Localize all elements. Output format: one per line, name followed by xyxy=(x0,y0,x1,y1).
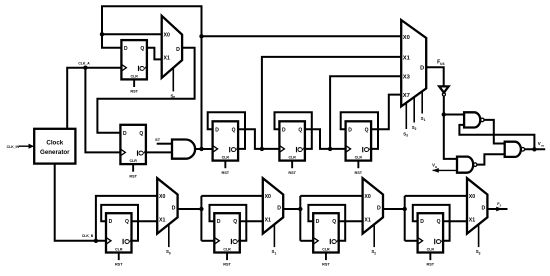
svg-text:CLK_IN: CLK_IN xyxy=(7,145,20,149)
wire stage input to next mux X0 xyxy=(405,195,467,197)
node Vout feedback tap xyxy=(532,147,536,151)
svg-text:RST: RST xyxy=(355,171,363,175)
svg-text:D: D xyxy=(481,205,485,211)
svg-text:RST: RST xyxy=(129,174,137,178)
wire FF5 Qbar toggle feedback to D xyxy=(341,112,378,149)
wire FF4 Qbar toggle feedback to D xyxy=(275,112,312,149)
svg-text:Q: Q xyxy=(124,238,131,244)
mux M4 xyxy=(363,178,383,255)
svg-text:RST: RST xyxy=(222,171,230,175)
svg-text:X7: X7 xyxy=(403,93,410,99)
flip-flop FF8 xyxy=(313,213,339,267)
wire mux M2 D output to stage input node xyxy=(178,208,202,210)
svg-text:Q: Q xyxy=(125,219,129,225)
svg-text:D: D xyxy=(348,127,352,133)
wire mux M4 D output to stage input node xyxy=(383,208,405,210)
wire stage input to FF9 clock xyxy=(405,240,418,242)
wire stage input to next mux X0 xyxy=(201,195,262,197)
flip-flop FF7 xyxy=(214,213,240,267)
svg-text:D: D xyxy=(172,205,176,211)
node clock chain junction with top loop xyxy=(199,147,203,151)
svg-text:CLR: CLR xyxy=(288,156,296,160)
svg-text:CLR: CLR xyxy=(427,248,435,252)
svg-text:D: D xyxy=(377,205,381,211)
svg-text:CLK_A: CLK_A xyxy=(78,61,90,65)
svg-text:D: D xyxy=(277,205,281,211)
svg-text:Q: Q xyxy=(365,127,369,133)
svg-text:CLR: CLR xyxy=(355,156,363,160)
wire FF7 Qbar toggle feedback to D xyxy=(210,205,247,241)
svg-text:Q: Q xyxy=(298,127,302,133)
clock generator box xyxy=(34,129,75,164)
and-gate U1 xyxy=(172,140,195,159)
wire FF6 Q to mux M2 X1 input xyxy=(132,220,158,222)
svg-text:Q: Q xyxy=(332,219,336,225)
svg-text:X0: X0 xyxy=(265,194,271,200)
wire stage input to next mux X0 xyxy=(300,195,362,197)
node CLK_B branch junction xyxy=(94,239,98,243)
svg-text:Q: Q xyxy=(140,65,147,71)
select S3 of mux MB xyxy=(405,103,407,129)
node CLK_A junction xyxy=(83,66,87,70)
node big mux X0 tap xyxy=(199,34,203,38)
wire inverter output down to nand U5 input A xyxy=(444,96,457,159)
wire top feedback loop into FF1 D and down to clock node xyxy=(102,6,202,149)
node stage input junction xyxy=(403,207,407,211)
wire mux MB D output xyxy=(426,67,444,86)
svg-text:Q: Q xyxy=(437,219,441,225)
svg-text:X1: X1 xyxy=(265,217,271,223)
wire FF4 Q to FF5 clock xyxy=(305,129,346,149)
svg-text:Q: Q xyxy=(140,46,144,52)
svg-text:D: D xyxy=(109,219,113,225)
svg-text:X0: X0 xyxy=(403,35,410,41)
svg-text:Q: Q xyxy=(139,131,143,137)
svg-text:RST: RST xyxy=(288,171,296,175)
svg-text:D: D xyxy=(176,47,180,53)
svg-text:Q: Q xyxy=(233,219,237,225)
wire to mux M1 X0 input xyxy=(102,33,162,35)
svg-text:D: D xyxy=(123,131,127,137)
wire mux M3 D output to stage input node xyxy=(283,208,300,210)
svg-text:X1: X1 xyxy=(469,217,475,223)
wire FF2 Qbar to and-gate input B xyxy=(146,151,172,153)
select S2 of mux MB xyxy=(413,97,415,122)
wire FF9 Q to mux M5 X1 input xyxy=(443,220,467,222)
mux M1 xyxy=(162,16,182,100)
wire VH input to nand U5 input B xyxy=(433,169,457,171)
svg-text:Q: Q xyxy=(436,238,443,244)
wire stage input vertical xyxy=(200,196,202,241)
flip-flop FF1 xyxy=(121,40,146,94)
node stage input junction xyxy=(298,207,302,211)
nand U3 (top) xyxy=(464,112,480,127)
wire mux M1 D output feedback to FF2 D xyxy=(97,48,194,133)
wire stage input vertical xyxy=(404,196,406,241)
wire mux M5 D output Fout xyxy=(487,208,507,210)
svg-text:D: D xyxy=(124,46,128,52)
svg-text:X0: X0 xyxy=(159,194,165,200)
svg-text:Q: Q xyxy=(233,238,240,244)
svg-text:X1: X1 xyxy=(159,217,165,223)
svg-text:D: D xyxy=(420,66,424,72)
svg-text:D: D xyxy=(282,127,286,133)
flip-flop FF2 xyxy=(120,125,145,179)
flip-flop FF9 xyxy=(418,213,444,267)
svg-text:X1: X1 xyxy=(164,56,170,62)
mux MB (8:1) xyxy=(401,20,426,106)
svg-text:D: D xyxy=(217,219,221,225)
svg-text:Q: Q xyxy=(231,146,238,152)
wire stage input to FF8 clock xyxy=(300,240,313,242)
svg-text:X0: X0 xyxy=(364,194,370,200)
svg-text:D: D xyxy=(316,219,320,225)
node stage input junction xyxy=(199,207,203,211)
svg-text:X1: X1 xyxy=(364,217,370,223)
svg-text:RST: RST xyxy=(322,263,330,267)
select S1 of mux MB xyxy=(421,91,423,113)
mux M2 xyxy=(157,178,177,255)
nand U5 (bottom) xyxy=(457,157,473,173)
wire FF9 Qbar toggle feedback to D xyxy=(413,205,450,241)
svg-text:Clock: Clock xyxy=(46,140,63,147)
mux M3 xyxy=(263,178,283,255)
wire FF5 Q to big mux MB X7 input xyxy=(371,95,401,130)
svg-text:X0: X0 xyxy=(164,32,170,38)
wire CLK_A down to FF2 clock xyxy=(85,68,120,153)
wire nand U5 output to nand U4 input B xyxy=(477,154,505,164)
svg-text:CLR: CLR xyxy=(115,248,123,252)
flip-flop FF3 xyxy=(213,121,239,175)
wire FF3 Qbar toggle feedback to D xyxy=(208,112,245,149)
svg-text:CLK_B: CLK_B xyxy=(82,234,94,238)
node on loop for mux M1 X0 xyxy=(100,32,104,36)
wire up to big mux MB X1 input xyxy=(262,57,401,149)
svg-text:RST: RST xyxy=(223,263,231,267)
svg-text:CLR: CLR xyxy=(130,74,138,78)
flip-flop FF5 xyxy=(346,121,372,175)
flip-flop FF6 xyxy=(106,213,132,267)
svg-text:CLR: CLR xyxy=(129,159,137,163)
wire and-gate output to FF3 clock chain xyxy=(195,148,213,150)
svg-text:CLR: CLR xyxy=(223,248,231,252)
flip-flop FF4 xyxy=(279,121,305,175)
wire CLK_B up to mux M2 X0 input xyxy=(96,196,157,241)
svg-text:Q: Q xyxy=(332,238,339,244)
svg-text:D: D xyxy=(215,127,219,133)
svg-text:X3: X3 xyxy=(403,75,411,81)
node X3 tap xyxy=(328,147,332,151)
wire FF7 Q to mux M3 X1 input xyxy=(240,220,263,222)
wire tap to nand U3 input A xyxy=(444,114,464,116)
svg-text:X1: X1 xyxy=(403,55,411,61)
wire nand U3 output to nand U4 input A xyxy=(484,120,505,144)
CLK_IN input arrow xyxy=(19,145,29,147)
svg-text:RST: RST xyxy=(115,263,123,267)
svg-text:Q: Q xyxy=(298,146,305,152)
wire up to big mux MB X3 input xyxy=(330,76,401,149)
svg-text:Q: Q xyxy=(364,146,371,152)
node inverter output tap xyxy=(442,112,446,116)
wire FF3 Q to FF4 clock xyxy=(238,129,279,149)
svg-text:CLR: CLR xyxy=(322,248,330,252)
wire FF8 Qbar toggle feedback to D xyxy=(308,205,345,241)
svg-text:CLR: CLR xyxy=(222,156,230,160)
wire FF8 Q to mux M4 X1 input xyxy=(339,220,363,222)
nand U4 (right) xyxy=(505,142,521,157)
wire stage input vertical xyxy=(299,196,301,241)
wire to big mux MB X0 input xyxy=(202,35,402,37)
svg-text:RST: RST xyxy=(427,263,435,267)
inverter U2 xyxy=(439,86,448,92)
svg-text:D: D xyxy=(420,219,424,225)
svg-text:X0: X0 xyxy=(469,194,475,200)
wire CLK_B from clock generator bottom to FF3 clock xyxy=(55,164,106,241)
wire stage input to FF7 clock xyxy=(201,240,214,242)
wire ST to and-gate input A xyxy=(157,143,172,145)
wire Vout feedback to nand U3 input B xyxy=(459,125,534,149)
wire FF6 Qbar toggle feedback to D xyxy=(101,205,138,241)
wire nand U4 output to Vout xyxy=(525,148,545,150)
svg-text:RST: RST xyxy=(130,90,138,94)
wire CLK_A from clock generator top to FF1 clock xyxy=(67,68,121,129)
mux M5 xyxy=(467,178,487,255)
svg-text:Q: Q xyxy=(139,150,146,156)
node X1 tap xyxy=(260,147,264,151)
svg-text:ST: ST xyxy=(155,138,161,142)
svg-text:Generator: Generator xyxy=(40,149,70,156)
svg-text:Q: Q xyxy=(232,127,236,133)
wire FF1 Q to mux M1 X1 input xyxy=(147,48,162,60)
